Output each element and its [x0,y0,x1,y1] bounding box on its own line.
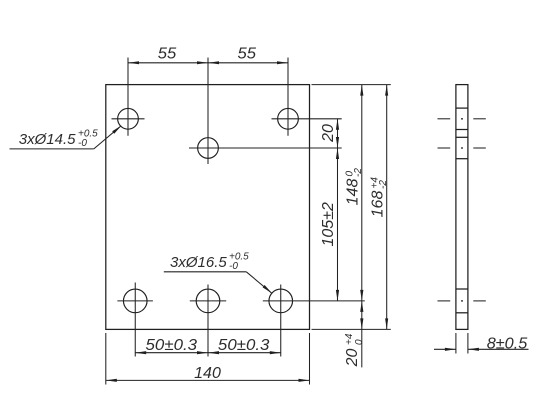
svg-text:3xØ16.5: 3xØ16.5 [170,254,227,271]
dimension 140: line, arrows, text [106,365,310,382]
svg-text:50±0.3: 50±0.3 [146,337,198,354]
hole middle Ø14.5 [198,138,219,159]
dimension 55 (left span): line, arrows, text [128,46,288,65]
extension line from plate top edge to right [312,84,391,86]
dimension 20 +4/0 (vertical, bottom right): line, arrows, text [344,301,365,368]
side view hole edge line (top holes, upper) [456,107,468,109]
dimension 50±0.3 (left span): line, arrows, text [135,337,281,354]
extension line plate bottom-right corner down [309,333,311,385]
side view hole edge line (middle hole, lower) [456,158,468,160]
dimension 105±2 (vertical): line, arrows, text [320,148,339,301]
side view hole edge line (bottom holes, upper) [456,288,468,290]
side view extension line bottom-right [467,333,469,354]
dimension 168 +4/-2 (vertical): line, arrows, text [369,85,389,330]
hole bottom-right Ø16.5 [269,289,293,313]
svg-text:20: 20 [344,349,361,368]
hole bottom-left Ø16.5 [123,289,147,313]
side view hole edge line (middle hole, upper) [456,136,468,138]
centerline bottom-middle hole horizontal [190,300,226,302]
centerline bottom-right hole horizontal (extension for dims 105/148) [263,300,365,302]
svg-text:0: 0 [354,339,365,345]
svg-text:-2: -2 [353,168,364,177]
svg-text:20: 20 [320,124,337,143]
svg-text:148: 148 [344,179,361,206]
label 3xØ16.5 +0.5/-0 with leader to bottom-right hole [164,251,272,293]
svg-text:3xØ14.5: 3xØ14.5 [19,131,76,148]
dimension 148 0/-2 (vertical): line, arrows, text [344,85,364,301]
svg-text:-2: -2 [378,180,389,189]
svg-text:105±2: 105±2 [320,202,337,246]
svg-text:55: 55 [158,46,177,63]
extension line plate bottom-left corner down [105,333,107,385]
centerline bottom-left hole vertical (extension for dim 50) [134,283,136,357]
centerline bottom-left hole horizontal [117,300,152,302]
svg-text:140: 140 [194,365,221,382]
side view extension line bottom-left [455,333,457,354]
side view hole edge line (top holes, lower) [456,129,468,131]
centerline bottom-middle hole vertical (extension for dim 50) [207,285,209,357]
dimension 8±0.5: lines, arrows, text [434,335,529,352]
svg-text:168: 168 [369,191,386,218]
centerline top-left hole vertical (extension for dim 55) [127,58,129,136]
front view plate outline [106,85,310,330]
centerline top-left hole horizontal [112,118,145,120]
centerline middle hole horizontal (extension for dims 20/105) [189,147,342,149]
side view centerline marks (middle hole row) [438,147,486,149]
label 3xØ14.5 +0.5/-0 with leader to top-left hole [10,125,122,148]
side view hole edge line (bottom holes, lower) [456,312,468,314]
side view plate outline [456,85,468,330]
extension line from plate bottom edge to right [312,328,391,330]
centerline bottom-right hole vertical (extension for dim 50) [280,285,282,357]
hole top-left Ø14.5 [118,108,139,129]
centerline top-right hole horizontal (extension for dim 20) [272,118,342,120]
dimension 20 (vertical, top right): line, arrows, text [320,119,339,148]
svg-text:-0: -0 [78,138,87,149]
centerline middle hole vertical (extension for dim 55) [207,58,209,165]
svg-text:-0: -0 [229,261,238,272]
hole bottom-middle Ø16.5 [196,289,220,313]
hole top-right Ø14.5 [278,108,299,129]
svg-text:8±0.5: 8±0.5 [487,335,528,352]
side view centerline marks (top holes row) [438,118,486,120]
centerline top-right hole vertical (extension for dim 55) [287,58,289,136]
svg-text:55: 55 [238,46,257,63]
svg-text:50±0.3: 50±0.3 [218,337,270,354]
side view centerline marks (bottom holes row) [438,300,486,302]
